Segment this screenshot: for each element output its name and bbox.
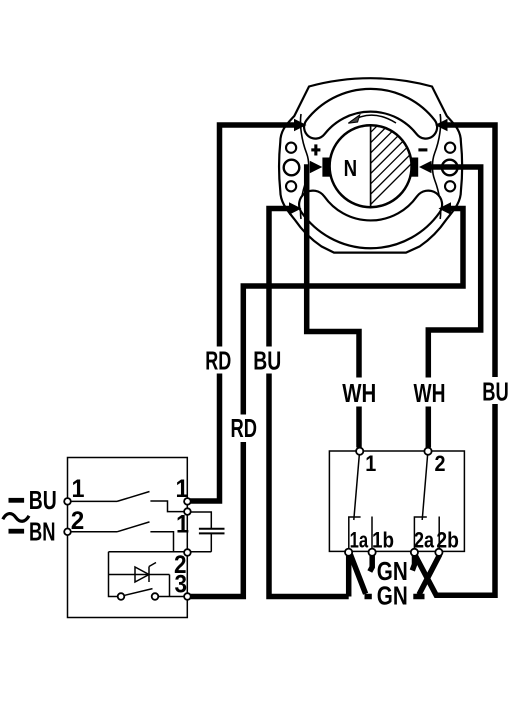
svg-text:1: 1 — [72, 475, 85, 503]
svg-text:BN: BN — [29, 519, 56, 547]
svg-text:BU: BU — [29, 487, 57, 515]
svg-text:2a: 2a — [414, 527, 434, 552]
svg-text:GN: GN — [377, 583, 408, 611]
svg-text:1b: 1b — [372, 527, 394, 552]
svg-text:WH: WH — [414, 380, 446, 408]
svg-text:BU: BU — [482, 379, 509, 407]
svg-text:RD: RD — [205, 348, 231, 376]
svg-text:2b: 2b — [436, 527, 459, 552]
svg-text:2: 2 — [71, 507, 85, 535]
svg-text:1: 1 — [176, 511, 189, 539]
svg-text:N: N — [344, 155, 358, 181]
svg-text:1: 1 — [176, 475, 189, 503]
svg-text:WH: WH — [342, 380, 376, 408]
svg-text:1: 1 — [365, 451, 376, 476]
svg-text:BU: BU — [253, 348, 281, 376]
svg-text:RD: RD — [231, 415, 258, 443]
svg-text:2: 2 — [435, 451, 446, 476]
svg-text:1a: 1a — [350, 527, 369, 552]
svg-text:3: 3 — [175, 571, 188, 599]
